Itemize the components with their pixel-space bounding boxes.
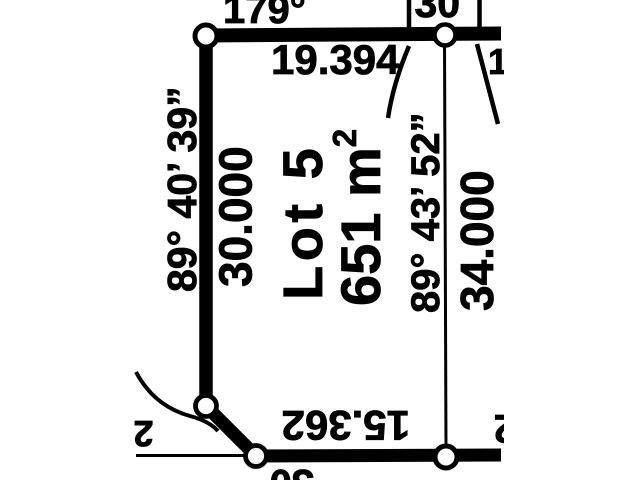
west thick boundary line <box>199 36 213 406</box>
survey marker circle (top right corner) <box>435 25 456 46</box>
east thin boundary line <box>445 40 447 450</box>
svg-text:30: 30 <box>270 461 315 480</box>
south thick boundary line <box>250 455 501 456</box>
svg-text:651 m2: 651 m2 <box>326 129 392 306</box>
adjoining boundary curve left of corner marker <box>388 46 409 118</box>
svg-text:19.394: 19.394 <box>271 36 400 83</box>
survey marker circle (top left corner) <box>195 25 217 47</box>
svg-text:2: 2 <box>133 413 153 454</box>
svg-text:34.000: 34.000 <box>451 170 503 311</box>
adjoining boundary curve right of corner marker <box>477 44 498 124</box>
svg-text:30: 30 <box>415 0 461 26</box>
survey marker circle (splay corner lower) <box>246 446 267 467</box>
svg-text:179°: 179° <box>223 0 306 32</box>
svg-text:89° 43’ 52”: 89° 43’ 52” <box>404 112 448 313</box>
road width tick bar left <box>407 0 412 28</box>
south thin boundary line of adjoining lot <box>136 454 252 457</box>
svg-text:30.000: 30.000 <box>210 146 262 287</box>
survey marker circle (bottom right corner) <box>435 446 457 468</box>
survey marker circle (splay corner upper) <box>196 396 217 417</box>
scan margin white mask (right edge) <box>504 0 640 480</box>
splay corner thick boundary line (diagonal) <box>206 406 256 456</box>
road width tick bar right <box>477 0 482 28</box>
adjoining lot arc at bottom left <box>136 372 218 431</box>
road frontage thick boundary line (top) <box>203 34 501 36</box>
svg-text:15.362: 15.362 <box>282 402 410 449</box>
svg-text:89° 40’ 39”: 89° 40’ 39” <box>159 86 205 292</box>
svg-text:Lot 5: Lot 5 <box>271 144 334 300</box>
